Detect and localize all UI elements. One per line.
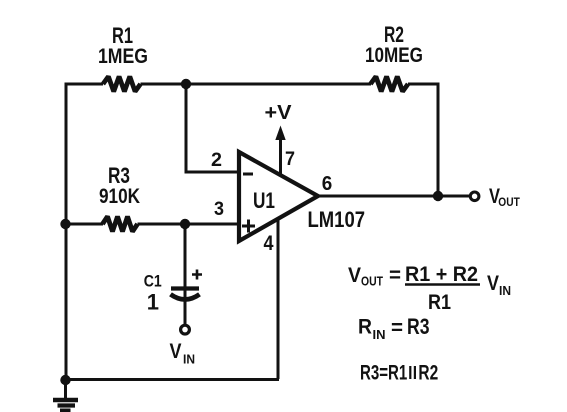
svg-text:OUT: OUT xyxy=(361,275,383,289)
label R3 xyxy=(108,163,130,188)
svg-text:R1: R1 xyxy=(428,291,451,314)
label R2 xyxy=(384,22,404,47)
svg-text:V: V xyxy=(487,272,499,295)
pin 2 number xyxy=(211,150,222,171)
label R1 xyxy=(112,23,133,48)
value 10MEG xyxy=(365,44,423,67)
svg-text:C1: C1 xyxy=(144,272,162,291)
value 1 xyxy=(147,289,159,314)
svg-text:3: 3 xyxy=(214,199,224,220)
svg-text:R1 + R2: R1 + R2 xyxy=(405,263,478,286)
ground xyxy=(53,380,78,411)
wire R3 to pin 3 xyxy=(138,223,240,226)
value 910K xyxy=(99,185,140,208)
svg-text:IN: IN xyxy=(373,328,386,342)
svg-text:+V: +V xyxy=(265,102,293,124)
label U1 xyxy=(253,188,275,213)
wire C1 stem upper xyxy=(184,224,187,325)
svg-text:OUT: OUT xyxy=(498,195,520,209)
label VIN xyxy=(170,340,196,367)
svg-text:R3=R1: R3=R1 xyxy=(360,362,408,385)
wire left vertical rail xyxy=(65,84,68,380)
resistor R2 xyxy=(371,77,409,92)
op-amp minus sign xyxy=(243,173,253,176)
svg-text:IN: IN xyxy=(183,353,195,367)
terminal VIN circle xyxy=(181,325,190,334)
svg-text:R3: R3 xyxy=(407,314,430,339)
capacitor plus polarity xyxy=(192,270,202,280)
svg-text:V: V xyxy=(348,264,361,287)
svg-text:U1: U1 xyxy=(253,188,275,213)
capacitor C1 xyxy=(171,289,200,300)
svg-text:R: R xyxy=(358,316,372,339)
pin 4 number xyxy=(264,232,274,255)
wire right vertical (R2 to output node) xyxy=(437,83,440,197)
wire feedback vertical to pin 2 xyxy=(186,84,239,172)
wire bottom horizontal xyxy=(66,378,279,381)
label VOUT xyxy=(489,185,520,209)
op-amp U1 triangle xyxy=(239,152,318,241)
formula fraction bar xyxy=(405,283,480,286)
formula Vin factor xyxy=(487,272,511,298)
svg-text:=: = xyxy=(389,264,401,287)
wire output (pin 6 to VOUT terminal) xyxy=(316,195,469,198)
value 1MEG xyxy=(98,45,148,68)
resistor R3 xyxy=(103,217,138,232)
pin 3 number xyxy=(214,199,224,220)
formula Rin = R3 xyxy=(358,314,430,342)
svg-text:10MEG: 10MEG xyxy=(365,44,423,67)
svg-text:2: 2 xyxy=(211,150,222,171)
node junction ground xyxy=(60,375,70,385)
svg-text:V: V xyxy=(170,340,182,363)
formula Vout numerator and equals xyxy=(348,263,478,289)
svg-text:LM107: LM107 xyxy=(308,207,366,232)
svg-text:6: 6 xyxy=(322,173,333,195)
svg-text:=: = xyxy=(391,317,403,340)
label LM107 xyxy=(308,207,366,232)
svg-text:4: 4 xyxy=(264,232,274,255)
svg-text:1MEG: 1MEG xyxy=(98,45,148,68)
node junction R3 left xyxy=(60,219,70,229)
node junction C1 top xyxy=(180,219,190,229)
pin 7 number xyxy=(285,149,295,170)
svg-text:910K: 910K xyxy=(99,185,140,208)
wire pin 4 down xyxy=(277,218,280,379)
wire top horizontal middle segment xyxy=(141,83,372,86)
wire R3 left segment xyxy=(66,223,103,226)
node junction top (feedback tap) xyxy=(181,79,191,89)
formula denominator R1 xyxy=(428,291,451,314)
svg-text:IN: IN xyxy=(499,284,511,298)
label +V xyxy=(265,102,293,124)
wire top horizontal left segment xyxy=(65,83,104,86)
formula R3 = R1 parallel R2 xyxy=(360,362,438,385)
node junction output xyxy=(433,191,443,201)
+V supply arrow xyxy=(275,126,285,174)
svg-text:7: 7 xyxy=(285,149,295,170)
op-amp plus sign xyxy=(242,220,255,233)
resistor R1 xyxy=(103,77,141,92)
label C1 xyxy=(144,272,162,291)
wire top horizontal right segment xyxy=(408,83,438,86)
terminal VOUT circle xyxy=(470,192,479,201)
pin 6 number xyxy=(322,173,333,195)
svg-text:R2: R2 xyxy=(418,362,438,385)
svg-text:1: 1 xyxy=(147,289,159,314)
